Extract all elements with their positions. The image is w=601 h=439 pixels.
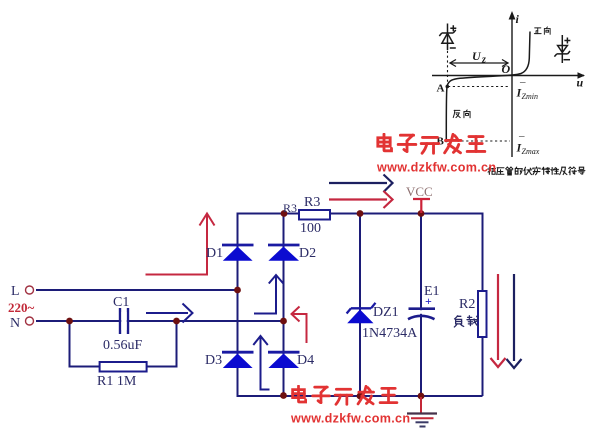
svg-text:R1 1M: R1 1M <box>97 374 137 389</box>
svg-text:100: 100 <box>300 221 321 236</box>
svg-text:VCC: VCC <box>406 184 433 199</box>
svg-text:R3: R3 <box>304 195 320 210</box>
svg-text:D2: D2 <box>299 246 316 261</box>
svg-text:u: u <box>577 76 584 90</box>
svg-text:Zmin: Zmin <box>522 92 538 101</box>
svg-text:A: A <box>437 83 445 95</box>
svg-text:DZ1: DZ1 <box>373 305 399 320</box>
svg-text:+: + <box>425 294 432 308</box>
svg-text:L: L <box>11 284 20 299</box>
svg-text:D3: D3 <box>205 353 222 368</box>
svg-text:z: z <box>481 55 486 66</box>
svg-text:i: i <box>516 12 520 26</box>
svg-text:1N4734A: 1N4734A <box>362 326 418 341</box>
svg-text:www.dzkfw.com.cn: www.dzkfw.com.cn <box>376 161 496 175</box>
svg-text:www.dzkfw.com.cn: www.dzkfw.com.cn <box>290 412 410 426</box>
svg-text:R3: R3 <box>283 201 297 215</box>
svg-text:N: N <box>10 316 20 331</box>
svg-text:Zmax: Zmax <box>522 147 540 156</box>
svg-text:O: O <box>502 62 511 76</box>
svg-text:U: U <box>472 49 482 63</box>
svg-text:R2: R2 <box>459 297 475 312</box>
svg-text:C1: C1 <box>113 295 129 310</box>
svg-text:D1: D1 <box>206 246 223 261</box>
svg-text:D4: D4 <box>297 353 314 368</box>
svg-text:0.56uF: 0.56uF <box>103 338 143 353</box>
svg-text:220~: 220~ <box>8 300 35 315</box>
